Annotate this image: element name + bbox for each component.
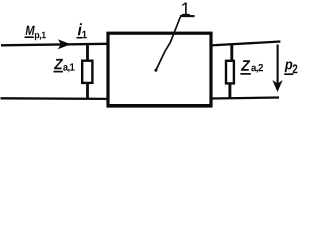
arrow p2 <box>272 45 282 93</box>
underline of Z2 <box>240 73 250 75</box>
wire right branch lower segment <box>228 83 231 99</box>
leader line from label 1 <box>156 17 180 70</box>
two-port network box bottom edge reinforcement <box>107 106 213 108</box>
label Z_a,2 <box>240 60 263 74</box>
wire bottom-right <box>211 98 279 99</box>
impedance Z_a,1 <box>82 61 92 83</box>
underline of M <box>25 36 34 38</box>
wire left branch upper segment <box>86 44 89 61</box>
label p_2 <box>284 62 297 75</box>
label M_p,1 <box>25 26 46 41</box>
two-port network box 1 <box>108 33 211 105</box>
impedance Z_a,2 <box>226 61 234 84</box>
wire right branch upper segment <box>230 43 233 61</box>
underline of i <box>77 37 83 39</box>
wire top-right <box>211 42 280 46</box>
current direction arrow for i1 on top-left wire <box>58 39 71 49</box>
underline of p <box>284 73 293 75</box>
underline of Z1 <box>54 71 63 73</box>
wire bottom-left <box>1 97 108 100</box>
label 1 <box>182 3 190 16</box>
wire top-left <box>1 44 107 46</box>
reference line under label 1 <box>180 15 195 17</box>
label i_1 <box>77 23 87 38</box>
label Z_a,1 <box>54 59 75 72</box>
leader dot <box>154 69 157 72</box>
wire left branch lower segment <box>86 83 89 99</box>
